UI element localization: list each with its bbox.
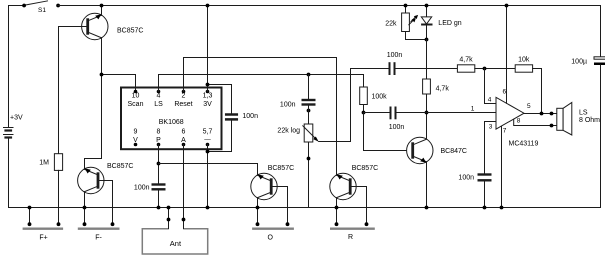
- wire pin 4 feedback: [485, 69, 497, 104]
- wire 22k bottom to LED node: [406, 32, 427, 40]
- node junction Q1 collector/scan: [100, 73, 104, 77]
- pin 5,7 dot: [206, 143, 210, 147]
- capacitor C6 100n middle: [389, 108, 405, 132]
- wire Q5 emitter to rail: [426, 162, 428, 208]
- svg-text:22k: 22k: [385, 21, 397, 28]
- wire right edge down to 100u: [600, 6, 602, 57]
- node junction LS/C4: [307, 73, 311, 77]
- wire Q1 emitter to rail: [101, 6, 103, 16]
- wire pin 5,7 to rail: [207, 145, 209, 208]
- node speaker lower pin dot: [550, 124, 554, 128]
- svg-text:1: 1: [471, 106, 475, 113]
- svg-text:10: 10: [132, 93, 140, 100]
- svg-text:100n: 100n: [134, 185, 150, 192]
- node junction 3V/C2: [206, 83, 210, 87]
- node junction dot rail 22k: [404, 4, 408, 8]
- transistor Q2 BC857C left-bottom: [78, 163, 134, 194]
- svg-text:R: R: [348, 234, 353, 241]
- svg-text:1M: 1M: [39, 160, 49, 167]
- capacitor C8 100u electrolytic: [571, 57, 605, 66]
- wire 100k bottom junction: [363, 105, 365, 113]
- svg-text:LS: LS: [579, 110, 588, 117]
- resistor R6 4.7k vertical: [423, 79, 450, 94]
- switch S1: [22, 1, 60, 14]
- speaker LS 8 Ohm: [557, 102, 600, 135]
- wire pot bottom pin to rail: [308, 142, 310, 208]
- node speaker upper pin dot: [550, 112, 554, 116]
- svg-text:MC43119: MC43119: [509, 141, 539, 148]
- node junction dot gnd Q2: [83, 206, 87, 210]
- svg-text:O: O: [267, 235, 273, 242]
- wire pin 1 line: [427, 112, 497, 114]
- capacitor C2 100n beside IC: [226, 113, 258, 120]
- pin 1,3 dot: [206, 90, 210, 94]
- wire Q2 collector to rail and F- left pin: [84, 192, 86, 225]
- svg-text:—: —: [204, 136, 211, 143]
- svg-text:LED gn: LED gn: [438, 20, 461, 27]
- wire 10k right to output: [533, 69, 542, 114]
- node junction dot gnd F+: [28, 206, 32, 210]
- svg-text:22k log: 22k log: [277, 128, 300, 135]
- svg-text:100n: 100n: [242, 113, 258, 120]
- svg-text:8 Ohm: 8 Ohm: [579, 117, 600, 124]
- IC U1 BK1068: [121, 88, 222, 150]
- transistor Q1 BC857C top-left: [82, 13, 144, 39]
- svg-text:8: 8: [517, 118, 521, 125]
- svg-text:BK1068: BK1068: [159, 119, 184, 126]
- svg-text:BC857C: BC857C: [107, 163, 133, 170]
- capacitor C7 100n at op-amp: [458, 174, 490, 181]
- svg-text:100n: 100n: [389, 124, 405, 131]
- wire C4 to pot: [308, 105, 310, 125]
- svg-text:8: 8: [157, 129, 161, 136]
- svg-text:100n: 100n: [280, 102, 296, 109]
- wire R4 to R5 10k: [475, 68, 515, 70]
- node junction R4/R5/pin4: [483, 67, 487, 71]
- wire reset line pin2 to Q4 emitter: [184, 58, 337, 176]
- node junction 100k bottom: [362, 111, 366, 115]
- svg-text:Ant: Ant: [170, 239, 182, 248]
- svg-text:100n: 100n: [458, 174, 474, 181]
- svg-text:6: 6: [502, 89, 506, 96]
- potentiometer P1 22k log: [277, 124, 318, 142]
- battery BT1 +3V: [4, 115, 23, 138]
- node junction dot gnd Q4: [335, 206, 339, 210]
- LED D1 green: [409, 6, 462, 40]
- node Ant right pin dot: [182, 218, 186, 222]
- pin 9 dot: [134, 143, 138, 147]
- svg-text:Scan: Scan: [128, 101, 144, 108]
- svg-text:100n: 100n: [387, 52, 403, 59]
- wire C2 bottom to pin 5,7: [208, 121, 232, 152]
- svg-text:S1: S1: [38, 7, 46, 14]
- node junction collector/C6/pin1: [425, 111, 429, 115]
- svg-text:F+: F+: [39, 235, 47, 242]
- resistor R4 4.7k horizontal: [457, 57, 474, 73]
- wire LED node down to R6: [426, 40, 428, 80]
- wire rail to antenna left pin: [168, 208, 170, 229]
- wire C7 to rail: [484, 180, 486, 207]
- capacitor C3 100n on P pin: [134, 185, 164, 192]
- svg-text:Reset: Reset: [174, 101, 192, 108]
- svg-text:+3V: +3V: [10, 115, 23, 122]
- capacitor C5 100n top coupling: [387, 52, 403, 74]
- wire right edge down to rail: [600, 65, 602, 208]
- wire pin 8 to speaker: [514, 119, 557, 125]
- pin 2 dot: [182, 90, 186, 94]
- wire 100k to C6: [364, 112, 390, 114]
- resistor R3 100k: [360, 87, 387, 105]
- svg-text:6: 6: [182, 129, 186, 136]
- terminal F-: [79, 222, 118, 241]
- node junction 22k/LED: [425, 38, 429, 42]
- resistor R1 1M: [39, 154, 62, 171]
- wire Q4 base to R right pin: [356, 187, 366, 225]
- wire pin 8 P down to C3: [158, 145, 160, 184]
- wire Q3 base to O right pin: [277, 187, 287, 225]
- transistor Q4 BC857C output R: [330, 165, 378, 200]
- wire Q4 collector to rail and R left pin: [336, 198, 338, 225]
- svg-text:1,3: 1,3: [203, 93, 213, 100]
- wire 3V branch to C2: [208, 85, 232, 114]
- svg-text:100k: 100k: [372, 94, 388, 101]
- node junction minus/C2: [206, 150, 210, 154]
- wire C3 to rail: [158, 189, 160, 207]
- wire 100k junction to Q5 base: [364, 113, 413, 151]
- svg-text:5,7: 5,7: [203, 129, 213, 136]
- wire C5 to R4 4.7k: [396, 68, 458, 70]
- wire Q3 collector to rail and O left pin: [257, 198, 259, 225]
- node junction dot gnd Q3: [256, 206, 260, 210]
- svg-text:F-: F-: [95, 235, 102, 242]
- svg-text:7: 7: [503, 128, 507, 135]
- svg-text:100µ: 100µ: [571, 58, 587, 65]
- wire LS to C4: [308, 75, 310, 100]
- pin 4 dot: [157, 90, 161, 94]
- svg-text:4: 4: [157, 93, 161, 100]
- resistor R5 10k horizontal: [515, 57, 532, 73]
- op-amp U2 MC43119: [471, 89, 539, 148]
- wire pin 6 to top rail: [506, 6, 508, 104]
- node junction dot rail LED: [425, 4, 429, 8]
- svg-text:BC857C: BC857C: [268, 165, 294, 172]
- node pot bottom pin dot: [307, 157, 311, 161]
- wire Q2 base to F- right pin: [104, 181, 112, 225]
- node junction dot rail pin6: [505, 4, 509, 8]
- resistor R2 22k: [385, 6, 409, 32]
- transistor Q3 BC857C output O: [251, 165, 294, 200]
- svg-text:3: 3: [489, 124, 493, 131]
- node junction dot gnd Ant: [167, 206, 171, 210]
- svg-text:LS: LS: [154, 101, 163, 108]
- capacitor C4 100n above pot: [280, 100, 314, 109]
- wire top rail left segment: [9, 6, 25, 128]
- wire P line to Q3 emitter: [159, 164, 258, 176]
- wire 3V supply from rail to pin 1,3: [207, 6, 209, 92]
- svg-text:BC857C: BC857C: [352, 165, 378, 172]
- svg-text:3V: 3V: [203, 101, 212, 108]
- node junction dot gnd C7: [483, 206, 487, 210]
- wire pin 6 A to antenna: [183, 145, 185, 229]
- terminal O: [253, 222, 292, 241]
- svg-text:10k: 10k: [518, 57, 530, 64]
- terminal F+: [24, 208, 62, 242]
- node junction dot gnd pin7: [500, 206, 504, 210]
- svg-text:4,7k: 4,7k: [436, 86, 450, 93]
- pin 6 dot: [182, 143, 186, 147]
- wire output pin 5 to speaker: [524, 113, 557, 115]
- wire pin 7 to rail: [501, 126, 503, 207]
- node junction dot gnd Q5: [425, 206, 429, 210]
- node Ant left pin dot: [167, 218, 171, 222]
- wire C6 to collector node: [397, 112, 427, 114]
- wire pot wiper up to C5: [319, 69, 389, 142]
- wire 1M to F+ right pin: [58, 170, 60, 224]
- transistor Q5 BC847C: [407, 137, 467, 163]
- node junction dot gnd C3: [157, 206, 161, 210]
- pin 10 dot: [134, 90, 138, 94]
- node junction dot rail Q1 emitter: [100, 4, 104, 8]
- wire scan line: [102, 75, 136, 92]
- wire battery to rail: [8, 138, 10, 208]
- svg-text:4: 4: [488, 96, 492, 103]
- wire R6 to Q5 collector: [426, 94, 428, 139]
- antenna Ant box: [142, 229, 207, 254]
- terminal R: [331, 222, 373, 241]
- svg-text:BC847C: BC847C: [441, 148, 467, 155]
- wire bottom ground rail: [9, 207, 601, 209]
- svg-text:9: 9: [134, 129, 138, 136]
- pin 8 dot: [157, 143, 161, 147]
- svg-text:BC857C: BC857C: [117, 28, 143, 35]
- node junction dot gnd minus: [206, 206, 210, 210]
- wire LS line pin4 to 100k: [159, 75, 364, 92]
- wire Q1 base to 1M: [59, 27, 88, 154]
- node junction P: [157, 162, 161, 166]
- wire top rail: [58, 5, 600, 7]
- node junction 10k/output: [540, 112, 544, 116]
- node junction dot rail 3V: [206, 4, 210, 8]
- wire pin 3 to C7: [485, 122, 497, 174]
- svg-text:2: 2: [182, 93, 186, 100]
- wire Q1 collector down to Q2 emitter: [85, 38, 102, 170]
- svg-text:4,7k: 4,7k: [459, 57, 473, 64]
- svg-text:5: 5: [527, 103, 531, 110]
- node pot top pin dot: [307, 109, 311, 113]
